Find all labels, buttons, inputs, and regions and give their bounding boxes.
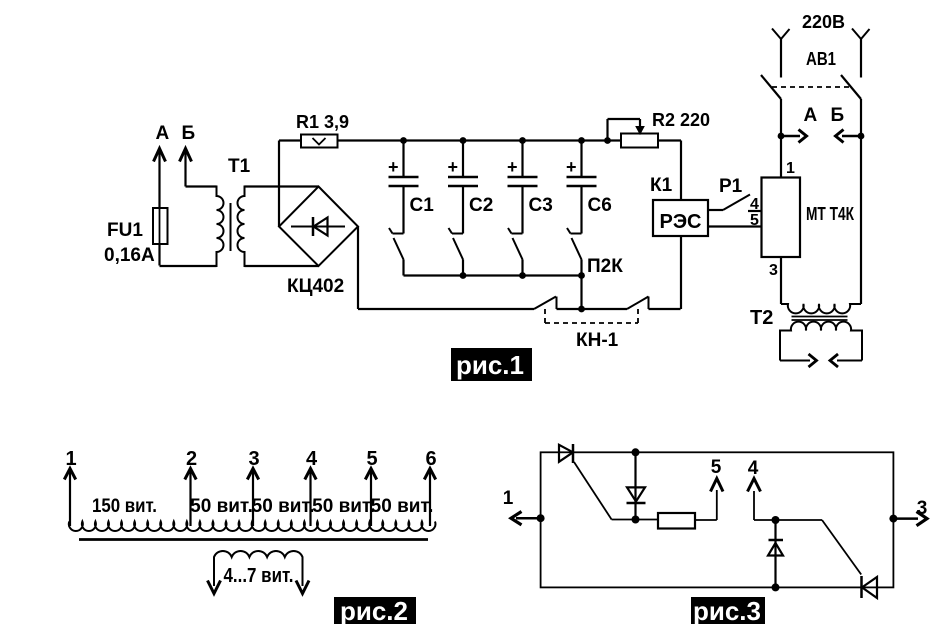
svg-text:5: 5	[711, 457, 722, 478]
svg-text:А: А	[156, 123, 170, 144]
svg-text:+: +	[507, 157, 518, 177]
svg-text:+: +	[388, 157, 399, 177]
svg-text:рис.2: рис.2	[340, 596, 408, 624]
svg-text:50 вит.: 50 вит.	[252, 496, 315, 517]
svg-text:КН-1: КН-1	[576, 330, 619, 351]
svg-text:Т2: Т2	[750, 307, 773, 329]
svg-text:0,16А: 0,16А	[104, 245, 155, 266]
svg-text:R2 220: R2 220	[652, 110, 710, 130]
svg-text:1: 1	[503, 488, 514, 509]
svg-text:С6: С6	[588, 195, 612, 216]
svg-text:АВ1: АВ1	[806, 49, 836, 69]
svg-text:+: +	[448, 157, 459, 177]
svg-text:50 вит.: 50 вит.	[312, 496, 375, 517]
svg-text:С3: С3	[529, 195, 553, 216]
svg-text:4: 4	[748, 458, 759, 479]
svg-text:С2: С2	[469, 195, 493, 216]
svg-text:5: 5	[750, 212, 759, 229]
svg-text:FU1: FU1	[107, 220, 143, 241]
svg-text:6: 6	[425, 448, 436, 470]
svg-text:А: А	[804, 105, 818, 126]
svg-text:4...7 вит.: 4...7 вит.	[224, 565, 294, 587]
svg-text:Т1: Т1	[228, 156, 251, 177]
svg-text:3: 3	[917, 498, 928, 519]
svg-text:Б: Б	[831, 105, 845, 126]
svg-text:С1: С1	[410, 195, 435, 216]
svg-text:150 вит.: 150 вит.	[92, 496, 157, 517]
svg-text:5: 5	[366, 448, 377, 470]
svg-text:К1: К1	[650, 175, 673, 196]
svg-text:3: 3	[248, 448, 259, 470]
svg-text:50 вит.: 50 вит.	[371, 496, 434, 517]
svg-text:П2К: П2К	[587, 256, 623, 277]
svg-text:4: 4	[750, 196, 759, 213]
svg-text:КЦ402: КЦ402	[287, 276, 344, 297]
svg-text:рис.1: рис.1	[456, 350, 524, 380]
svg-text:1: 1	[786, 160, 795, 177]
svg-text:Р1: Р1	[719, 176, 743, 197]
svg-text:МТ Т4К: МТ Т4К	[806, 204, 855, 224]
svg-text:3: 3	[769, 262, 778, 279]
svg-text:Б: Б	[182, 123, 196, 144]
svg-text:+: +	[566, 157, 577, 177]
svg-text:2: 2	[186, 448, 197, 470]
svg-text:4: 4	[306, 448, 318, 470]
svg-text:R1 3,9: R1 3,9	[296, 112, 349, 132]
svg-text:РЭС: РЭС	[659, 211, 701, 233]
svg-text:1: 1	[65, 448, 76, 470]
svg-text:50 вит.: 50 вит.	[190, 496, 253, 517]
svg-text:рис.3: рис.3	[693, 596, 761, 624]
svg-text:220В: 220В	[802, 12, 845, 32]
